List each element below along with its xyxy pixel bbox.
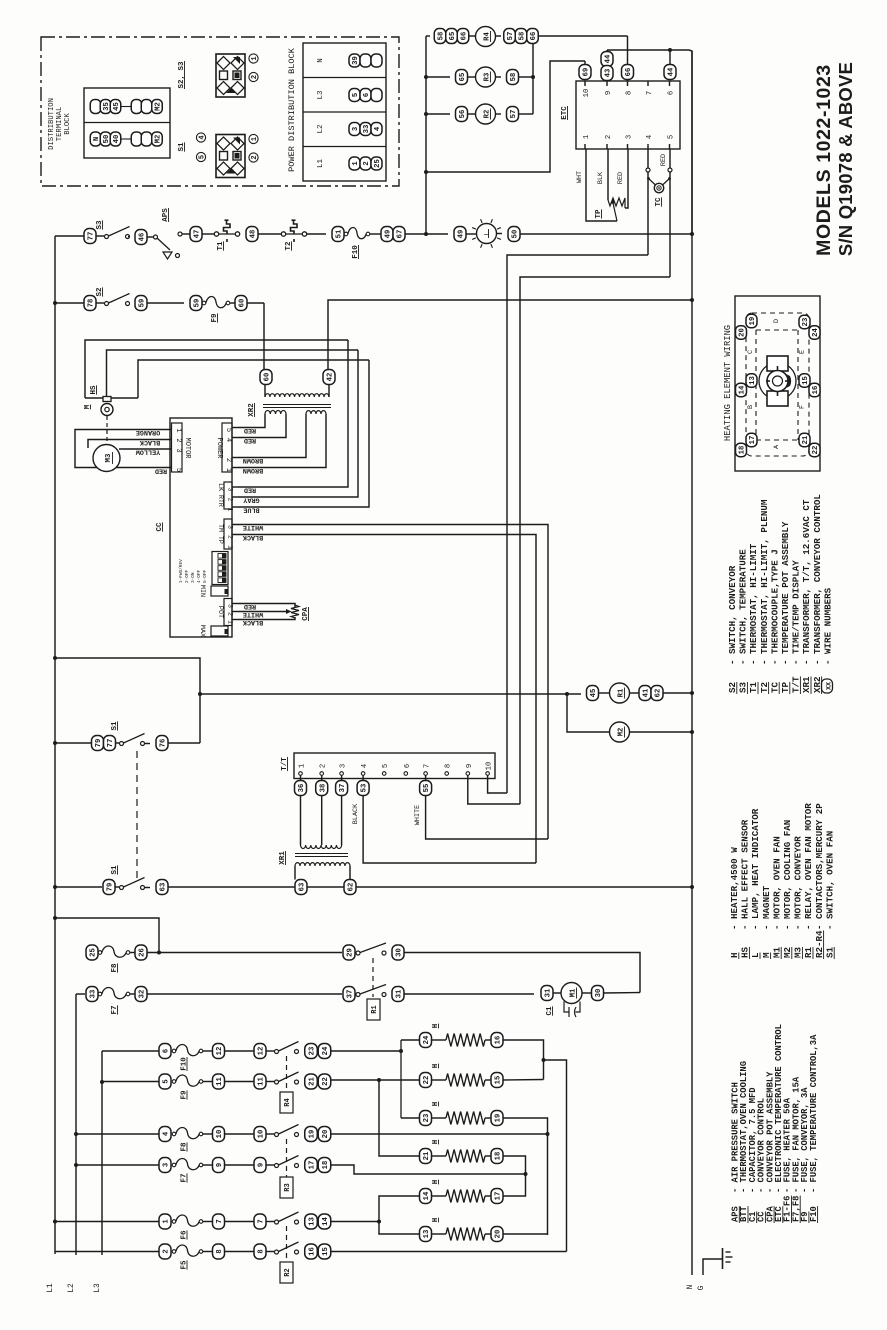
- conveyor pot CPA zigzag: [291, 605, 299, 618]
- terminal 16: [305, 1244, 318, 1259]
- svg-text:1: 1: [163, 1219, 171, 1224]
- svg-text:45: 45: [590, 689, 598, 698]
- terminal 60: [235, 296, 247, 311]
- heating element terminal 18: [736, 443, 747, 457]
- svg-text:1: 1: [299, 764, 307, 768]
- svg-text:7: 7: [646, 91, 654, 95]
- ground symbol: [723, 1248, 733, 1269]
- wire ETC pin5 to TC: [669, 149, 671, 277]
- CC POWER pin block: [222, 423, 232, 472]
- svg-text:19: 19: [749, 317, 757, 326]
- svg-text:5: 5: [163, 1079, 171, 1083]
- wire T/T pin7: [425, 775, 427, 781]
- terminal block top row terminals: [90, 100, 162, 114]
- wire ETC pin3 RED to TP: [625, 149, 628, 208]
- heating element terminal 23: [799, 315, 810, 329]
- svg-text:26: 26: [139, 948, 147, 957]
- svg-text:24: 24: [423, 1035, 431, 1044]
- wire M2 to N bus: [630, 731, 693, 733]
- fuse F7: [98, 987, 130, 998]
- svg-text:15: 15: [802, 376, 810, 385]
- ETC bottom pin labels: [583, 135, 676, 139]
- svg-text:- MOTOR, COOLING FAN: - MOTOR, COOLING FAN: [782, 820, 793, 930]
- heater H element 14-17: [432, 1190, 492, 1203]
- wire POT pin1 BLACK to CPA: [238, 617, 295, 620]
- terminal 62: [344, 880, 356, 895]
- wire LK RTR pin2 GRAY: [238, 350, 358, 497]
- heater H label: [432, 1102, 440, 1107]
- svg-text:13: 13: [309, 1217, 317, 1226]
- svg-text:37: 37: [339, 784, 347, 793]
- wire heater4 right vertical: [503, 1156, 526, 1196]
- wire top run RED to motor loop: [85, 340, 348, 398]
- svg-text:BLUE: BLUE: [243, 506, 259, 514]
- svg-text:23: 23: [423, 1114, 431, 1123]
- svg-text:L3: L3: [94, 1283, 102, 1293]
- terminal 77: [84, 229, 96, 244]
- wire POT pin2 WHITE to CPA wiper: [238, 611, 286, 613]
- svg-text:1: 1: [227, 620, 234, 624]
- svg-text:15: 15: [322, 1247, 330, 1256]
- fuse F7: [172, 1158, 203, 1169]
- svg-text:WHT: WHT: [576, 171, 584, 183]
- terminal 43: [601, 66, 613, 81]
- junction on N bus: [690, 232, 694, 236]
- junction L2 row3: [74, 1163, 78, 1167]
- svg-text:7: 7: [424, 764, 432, 768]
- legend entry ETC: [774, 1024, 784, 1223]
- svg-text:BLK: BLK: [597, 171, 605, 184]
- wire R2 to right vertical: [519, 113, 534, 115]
- time/temp display T/T outline: [294, 753, 495, 779]
- svg-text:3: 3: [174, 448, 182, 452]
- svg-text:1: 1: [227, 545, 234, 549]
- terminal 41: [639, 686, 651, 701]
- wire: [145, 743, 151, 745]
- hall effect sensor HS: [103, 397, 111, 402]
- wire: [225, 1164, 255, 1166]
- svg-text:9: 9: [605, 91, 613, 95]
- svg-text:6: 6: [163, 1049, 171, 1053]
- svg-text:R1: R1: [371, 1005, 379, 1013]
- fuse F9: [172, 1075, 203, 1086]
- heating element motor hub: [759, 356, 796, 406]
- terminal 77: [104, 736, 116, 751]
- wire: [203, 1164, 213, 1166]
- wire: [96, 302, 104, 304]
- terminal 58: [507, 70, 519, 85]
- svg-text:4-OFF: 4-OFF: [197, 569, 202, 583]
- wire: [130, 952, 135, 954]
- transformer XR2 primary winding: [265, 394, 329, 397]
- junction at R-coil bus: [424, 232, 428, 236]
- svg-text:60: 60: [239, 299, 247, 308]
- svg-text:24: 24: [812, 328, 820, 337]
- svg-text:41: 41: [643, 688, 651, 697]
- terminal 58: [434, 29, 446, 44]
- wire TM TP pin2 BLACK long run: [232, 535, 536, 864]
- heater H terminal 15: [491, 1073, 503, 1088]
- junction: [531, 75, 535, 79]
- contactor S2,S3 terminal 2: [249, 72, 259, 81]
- capacitor C1: [564, 1002, 580, 1018]
- wire: [225, 1081, 255, 1083]
- magnet M label: [84, 404, 92, 409]
- svg-text:L2: L2: [68, 1283, 76, 1293]
- distribution terminal block outline: [84, 88, 170, 158]
- wire M2 branch: [567, 694, 609, 732]
- svg-text:10: 10: [258, 1130, 266, 1139]
- wire: [225, 1050, 255, 1052]
- svg-text:18: 18: [495, 1152, 503, 1161]
- svg-text:- CONTACTORS,MERCURY 2P: - CONTACTORS,MERCURY 2P: [814, 803, 825, 930]
- junction L1 and S2 row: [53, 301, 57, 305]
- contactor S1 label: [178, 142, 186, 152]
- svg-text:6: 6: [404, 764, 412, 768]
- TP label: [595, 209, 603, 219]
- wire XR2 sec1 to POWER pin5 RED: [238, 414, 265, 428]
- terminal 11: [254, 1074, 266, 1089]
- terminal 30: [592, 986, 604, 1001]
- svg-text:63: 63: [160, 883, 168, 892]
- wire YELLOW M3: [119, 448, 172, 450]
- wire: [116, 742, 120, 744]
- wire BLACK pin4 run: [363, 796, 536, 864]
- svg-text:RED: RED: [244, 602, 256, 610]
- wire: [203, 1251, 213, 1253]
- svg-text:66: 66: [461, 32, 469, 41]
- wire: [307, 233, 327, 235]
- svg-text:25: 25: [90, 948, 98, 957]
- junction row13/14: [377, 1220, 381, 1224]
- legend entry TP: [780, 521, 791, 694]
- wire heater3 right vertical: [503, 1118, 548, 1235]
- terminal 2: [159, 1244, 171, 1259]
- svg-text:3: 3: [340, 764, 348, 768]
- svg-text:7: 7: [216, 1219, 224, 1223]
- svg-text:9: 9: [466, 764, 474, 768]
- switch S1 fan section 2: [120, 878, 145, 890]
- svg-text:RED: RED: [244, 486, 256, 494]
- terminal 51: [332, 227, 344, 242]
- contactor coil R4: [476, 27, 496, 47]
- wire: [599, 692, 610, 694]
- svg-text:R2: R2: [284, 1268, 292, 1276]
- terminal 38: [316, 781, 328, 796]
- wire to heater 3 left: [401, 1117, 420, 1119]
- svg-text:1: 1: [224, 468, 232, 472]
- wire F9-60 drop to XR2: [263, 303, 265, 372]
- svg-text:BLACK: BLACK: [139, 438, 160, 446]
- heating element terminal 14: [736, 383, 747, 397]
- transformer XR2 secondary 1 winding: [265, 410, 286, 414]
- wire S1 row1: [55, 742, 92, 744]
- junction L3 row5: [100, 1080, 104, 1084]
- terminal 37: [343, 987, 355, 1002]
- wire L2 to F7 row: [76, 993, 85, 995]
- heater H terminal 19: [491, 1111, 503, 1126]
- wire: [225, 1133, 255, 1135]
- switch S2 label: [96, 287, 104, 297]
- svg-text:TM TP: TM TP: [217, 524, 224, 544]
- svg-text:16: 16: [812, 386, 820, 395]
- fuse F8: [172, 1127, 203, 1138]
- svg-text:65: 65: [449, 32, 457, 41]
- svg-text:YELLOW: YELLOW: [135, 448, 160, 456]
- svg-text:RED: RED: [660, 154, 668, 166]
- terminal 17: [305, 1158, 318, 1173]
- wire lamp row to N bus: [520, 233, 692, 235]
- svg-text:22: 22: [812, 446, 820, 455]
- L1 bus: [54, 303, 56, 1254]
- heater H terminal 17: [491, 1189, 503, 1204]
- power block L3 cell: [317, 89, 382, 102]
- CC MAX trimmer: [198, 625, 229, 637]
- wire R1 row: [200, 693, 581, 695]
- svg-text:21: 21: [802, 435, 810, 444]
- wire: [266, 1164, 274, 1166]
- terminal 67: [393, 227, 405, 242]
- svg-text:5: 5: [224, 428, 232, 432]
- svg-text:M3: M3: [105, 453, 113, 462]
- fuse F7 label: [181, 1173, 189, 1182]
- contactor S1 symbol: [216, 135, 245, 178]
- wire S1 row1 to x200: [168, 742, 200, 744]
- svg-text:- FUSE, TEMPERATURE CONTROL,3A: - FUSE, TEMPERATURE CONTROL,3A: [809, 1034, 819, 1193]
- svg-text:53: 53: [361, 784, 369, 793]
- lamp L heat indicator: [472, 219, 501, 248]
- junction pin10 feed: [424, 170, 428, 174]
- wire: [582, 992, 591, 994]
- svg-text:BROWN: BROWN: [243, 466, 263, 474]
- svg-text:- WIRE NUMBERS: - WIRE NUMBERS: [822, 587, 833, 665]
- svg-text:8: 8: [626, 91, 634, 95]
- svg-text:17: 17: [495, 1192, 503, 1201]
- wire: [115, 886, 119, 888]
- wire pin9 pills to N line: [606, 50, 608, 52]
- terminal 57: [504, 29, 516, 44]
- terminal 10: [213, 1127, 225, 1142]
- terminal 4: [159, 1127, 171, 1142]
- terminal 55: [420, 781, 432, 796]
- terminal 11: [213, 1074, 225, 1089]
- svg-text:40: 40: [113, 135, 121, 144]
- svg-text:N: N: [687, 1284, 695, 1289]
- distribution terminal block divider: [84, 122, 170, 124]
- svg-text:- MOTOR, OVEN FAN: - MOTOR, OVEN FAN: [771, 836, 782, 930]
- svg-text:18: 18: [322, 1161, 330, 1170]
- power distribution block outline: [303, 43, 386, 181]
- heater H terminal 14: [420, 1189, 432, 1204]
- svg-text:L: L: [484, 231, 492, 235]
- terminal 8: [254, 1244, 266, 1259]
- MOTOR pin numbers: [174, 428, 182, 472]
- terminal 62: [651, 686, 663, 701]
- svg-text:L3: L3: [317, 90, 325, 100]
- terminal 29: [343, 945, 355, 960]
- svg-text:- TRANSFORMER, T/T, 12.6VAC CT: - TRANSFORMER, T/T, 12.6VAC CT: [801, 499, 812, 665]
- wire: [147, 236, 153, 238]
- wire L1 bus top corner to S3 row: [54, 236, 56, 303]
- svg-text:7: 7: [258, 1219, 266, 1223]
- svg-text:14: 14: [739, 385, 747, 394]
- svg-text:57: 57: [507, 32, 515, 41]
- wire: [370, 233, 381, 235]
- TP wiper arrow: [610, 199, 617, 222]
- svg-text:19: 19: [495, 1114, 503, 1123]
- wire: [96, 235, 104, 237]
- wire heater5-6 left vertical: [379, 1196, 420, 1234]
- svg-text:44: 44: [668, 67, 676, 76]
- terminal 21: [305, 1074, 318, 1089]
- switch S1 label: [111, 721, 119, 731]
- heating element terminal 15: [799, 374, 810, 388]
- wire heater2 right: [503, 1079, 544, 1082]
- wire: [225, 1221, 255, 1223]
- svg-text:49: 49: [458, 230, 466, 239]
- svg-text:43: 43: [605, 69, 613, 78]
- svg-text:58: 58: [510, 73, 518, 82]
- svg-text:RED: RED: [155, 467, 167, 475]
- terminal 23: [305, 1044, 318, 1059]
- svg-text:8: 8: [258, 1249, 266, 1253]
- terminal 66: [457, 29, 469, 44]
- junction L1 row F6: [53, 1220, 57, 1224]
- svg-text:29: 29: [347, 948, 355, 957]
- wire T/T pin4: [362, 775, 364, 781]
- junction S1 row1: [53, 741, 57, 745]
- contactor R4 designator box: [280, 1092, 293, 1113]
- terminal 32: [135, 987, 147, 1002]
- svg-text:GRAY: GRAY: [242, 496, 259, 504]
- fuse F6 label: [181, 1230, 189, 1240]
- terminal 59: [190, 296, 202, 311]
- heating element terminal 24: [809, 326, 820, 340]
- junction 42 line on N bus: [690, 298, 694, 302]
- fuse F10 label: [352, 245, 360, 259]
- R coils right vertical: [532, 44, 534, 114]
- heater H label: [432, 1218, 440, 1223]
- wire: [128, 236, 130, 238]
- svg-text:2: 2: [227, 498, 234, 502]
- wire BLACK M3: [88, 440, 172, 449]
- magnet M: [101, 404, 113, 416]
- relay coil R1: [610, 683, 630, 703]
- legend entry F9: [800, 1087, 810, 1223]
- heating element terminal 13: [746, 374, 757, 388]
- legend entry S2: [727, 565, 738, 694]
- distribution terminal block label: [48, 98, 72, 150]
- svg-text:L1: L1: [317, 159, 325, 169]
- legend entry F1-F6: [783, 1097, 793, 1223]
- wire: [239, 233, 242, 235]
- terminal 20: [318, 1127, 331, 1142]
- XR2 primary stubs: [265, 384, 329, 397]
- wire LK RTR pin1 BLUE: [238, 360, 369, 507]
- svg-text:5: 5: [174, 468, 182, 472]
- svg-text:56: 56: [459, 110, 467, 119]
- heating element terminal 17: [746, 433, 757, 447]
- junction S1 row2: [53, 885, 57, 889]
- terminal 46: [135, 230, 147, 245]
- svg-text:14: 14: [423, 1191, 431, 1200]
- switch S1 label: [111, 865, 119, 875]
- wire: [203, 1081, 213, 1083]
- terminal 49: [454, 227, 466, 242]
- terminal 79: [103, 880, 115, 895]
- terminal 63: [156, 880, 168, 895]
- relay R1 designator box: [367, 999, 380, 1020]
- junction branch y658: [53, 656, 57, 660]
- svg-text:S3: S3: [738, 681, 749, 693]
- svg-text:14: 14: [322, 1217, 330, 1226]
- svg-text:10: 10: [583, 89, 591, 98]
- svg-text:42: 42: [327, 373, 335, 382]
- junction XR1 row on N bus: [690, 885, 694, 889]
- motor M3: [93, 445, 120, 472]
- contactor R2 designator box: [280, 1262, 293, 1283]
- hall effect sensor HS label: [90, 385, 98, 395]
- svg-text:59: 59: [194, 299, 202, 308]
- svg-text:10: 10: [216, 1130, 224, 1139]
- fuse F10: [344, 227, 370, 238]
- svg-text:LK RTR: LK RTR: [217, 483, 224, 507]
- terminal 42: [323, 370, 335, 385]
- svg-text:HS: HS: [740, 946, 751, 958]
- svg-text:- TIME/TEMP DISPLAY: - TIME/TEMP DISPLAY: [791, 560, 802, 665]
- contactor S2,S3 terminal 1: [249, 54, 259, 63]
- svg-text:5: 5: [668, 135, 676, 139]
- svg-text:65: 65: [459, 73, 467, 82]
- CC LK RTR pin block: [224, 482, 232, 509]
- junction R2: [424, 112, 428, 116]
- CC MOTOR pin block: [172, 423, 183, 472]
- svg-text:ORANGE: ORANGE: [136, 428, 160, 436]
- terminal 3: [159, 1158, 171, 1173]
- svg-text:- THERMOCOUPLE,TYPE J: - THERMOCOUPLE,TYPE J: [769, 549, 780, 665]
- svg-text:3: 3: [227, 604, 234, 608]
- contactor coil R2: [476, 104, 496, 124]
- svg-text:23: 23: [802, 318, 810, 327]
- junction L1 branch to F8 row: [53, 916, 57, 920]
- thermostat T2: [281, 220, 306, 242]
- wire: [147, 302, 184, 304]
- wire ETC pin1 WHT to TP wiper: [586, 149, 617, 221]
- legend entry L: [750, 808, 761, 959]
- svg-text:M3: M3: [793, 946, 804, 958]
- svg-text:- HALL EFFECT SENSOR: - HALL EFFECT SENSOR: [740, 819, 751, 930]
- heating element terminal 19: [746, 314, 757, 328]
- wire: [182, 233, 190, 235]
- wire F7 row to M1: [404, 993, 534, 995]
- wire pin5 run to T/T9 vertical: [520, 277, 670, 804]
- svg-text:S/N Q19078 & ABOVE: S/N Q19078 & ABOVE: [835, 62, 856, 256]
- CC label: [156, 522, 164, 532]
- wire pin6 drop: [669, 50, 671, 64]
- wire POT pin3 RED to CPA: [238, 604, 295, 608]
- svg-text:3: 3: [163, 1163, 171, 1167]
- wire: [203, 1221, 213, 1223]
- svg-text:T/T: T/T: [791, 676, 802, 693]
- svg-text:38: 38: [319, 784, 327, 793]
- terminal 9: [213, 1158, 225, 1173]
- electronic temperature control ETC outline: [576, 81, 680, 149]
- contactor contact: [275, 1242, 299, 1254]
- wire R4 row: [426, 35, 430, 37]
- legend entry S1: [824, 831, 835, 959]
- terminal 57: [507, 107, 519, 122]
- switch S3: [105, 227, 130, 239]
